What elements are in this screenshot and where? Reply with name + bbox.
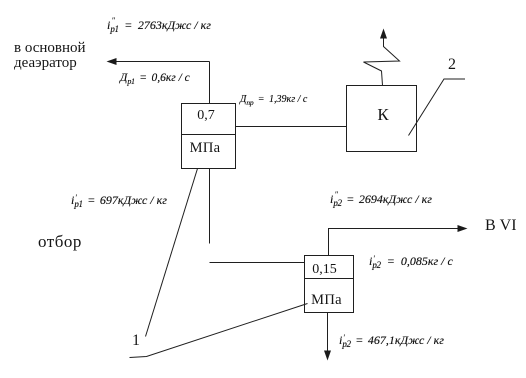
formula i'p1 = 697 kJ/kg — [71, 193, 167, 208]
formula i'p2 = 467.1 kJ/kg — [339, 333, 444, 348]
wire: vertical below box P1 — [209, 169, 211, 244]
box P2 (0,15 MPa expander) — [305, 256, 354, 313]
formula Dpr = 1.39 kg/s — [240, 94, 307, 105]
label: otbor — [38, 232, 82, 252]
label 0,7 in box P1 — [179, 108, 233, 124]
label 1 — [132, 332, 140, 350]
label: v osnovnoy deaerator — [14, 41, 86, 71]
formula Dp1 = 0.6 kg/s — [120, 72, 190, 84]
box P1 (0,7 MPa expander) — [182, 104, 236, 169]
wire: horizontal into box P2 left — [210, 262, 305, 264]
wire: vertical from arrow line to box P1 top — [209, 62, 211, 104]
formula i''p1 = 2763 kJ/kg — [107, 18, 211, 33]
label 2 — [448, 56, 456, 74]
vent zigzag from box K top with up arrow — [364, 29, 400, 86]
pointer line 2 to box K — [409, 79, 466, 136]
wire: box P2 bottom drain arrow — [324, 313, 331, 361]
formula i''p2 = 2694 kJ/kg — [330, 192, 432, 207]
pointer line 1 to box P1 — [146, 169, 198, 337]
wire: deaerator outlet arrow — [107, 58, 210, 65]
box K (boiler) — [347, 86, 417, 152]
label: B VI — [485, 217, 517, 235]
label MPa in box P1 — [178, 140, 232, 157]
wire: box P1 right to box K left — [236, 126, 347, 128]
wire: box P2 top to B VI arrow — [329, 225, 468, 256]
label 0,15 in box P2 — [300, 262, 349, 278]
formula i'p2 = 0.085 kg/s — [369, 254, 453, 269]
label K in box K — [348, 105, 418, 125]
label MPa in box P2 — [302, 292, 351, 309]
pointer line 1 to box P2 — [130, 304, 308, 358]
